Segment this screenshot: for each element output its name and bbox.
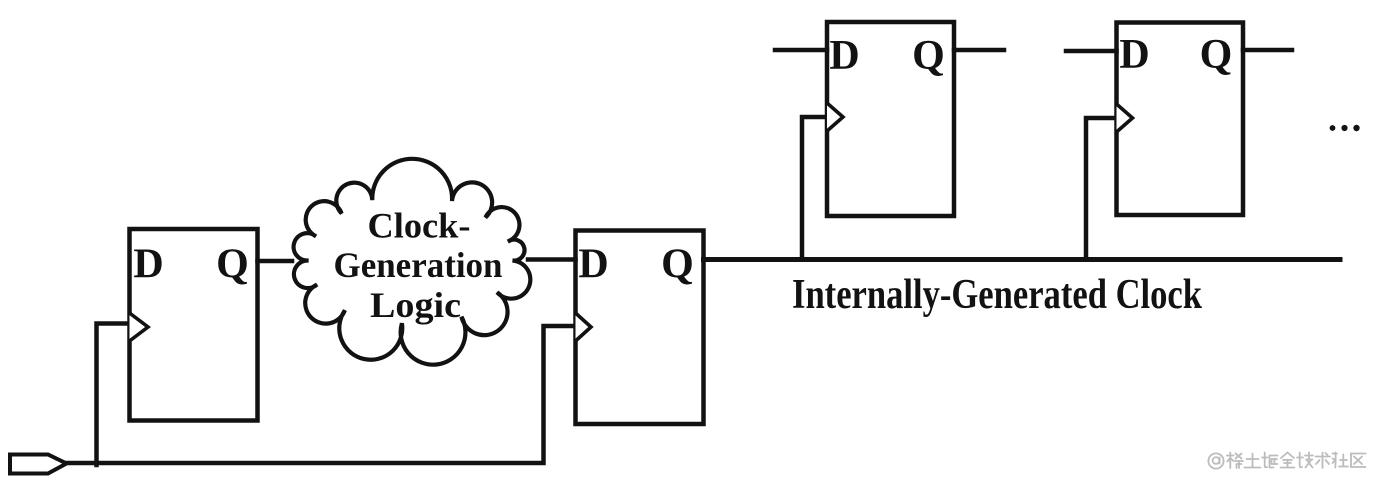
clock-generation logic cloud [294, 159, 531, 365]
input port symbol (external clock pin) [10, 455, 67, 474]
watermark glyph 土 [1245, 454, 1261, 468]
wire: clock tap up to FF4 clock input [1086, 118, 1117, 260]
watermark glyph 金 [1281, 453, 1295, 468]
wire: clock tap up to FF3 clock input [802, 117, 827, 260]
flip-flop U4 (upper-right D flip-flop): box [1117, 23, 1244, 216]
svg-text:Logic: Logic [370, 285, 461, 325]
wire: FF1 Q output to cloud [258, 259, 293, 264]
svg-text:D: D [829, 33, 859, 79]
flip-flop U1 (left D flip-flop): box [130, 229, 258, 421]
wire: FF4 D input stub [1066, 49, 1117, 54]
watermark glyph 社 [1333, 453, 1349, 468]
watermark glyph 区 [1351, 454, 1366, 468]
watermark glyph 术 [1316, 453, 1331, 469]
wire: FF3 D input stub [775, 48, 827, 53]
svg-text:D: D [133, 242, 163, 288]
svg-text:Q: Q [661, 242, 694, 288]
flip-flop U3 (upper-left D flip-flop): clock input chevron [827, 103, 843, 131]
wire: internally-generated clock line from FF2 Q [704, 257, 1341, 262]
wire: FF4 Q output stub [1243, 48, 1292, 53]
watermark @ sign [1208, 453, 1223, 468]
svg-text:Q: Q [216, 242, 249, 288]
wire: external clock bottom run from input port to FF2 clock [64, 326, 576, 463]
flip-flop U2 (middle D flip-flop): clock input chevron [576, 313, 592, 341]
svg-text:D: D [1119, 32, 1149, 78]
flip-flop U1 (left D flip-flop): clock input chevron [130, 313, 149, 341]
watermark glyph 掘 [1262, 453, 1278, 468]
wire: cloud output to FF2 D input [528, 257, 576, 262]
watermark glyph 技 [1297, 453, 1313, 468]
wire: clk net from input port up to FF1 clock [97, 324, 132, 466]
flip-flop U4 (upper-right D flip-flop): clock input chevron [1117, 104, 1133, 132]
watermark glyph 稀 [1227, 453, 1243, 469]
wire: FF3 Q output stub [954, 48, 1004, 53]
ellipsis: more flip-flop stages [1330, 125, 1360, 131]
flip-flop U2 (middle D flip-flop): box [576, 231, 704, 425]
flip-flop U3 (upper-left D flip-flop): box [827, 22, 954, 216]
svg-text:Q: Q [912, 33, 945, 79]
svg-text:Generation: Generation [334, 245, 503, 285]
svg-text:Internally-Generated Clock: Internally-Generated Clock [792, 271, 1202, 318]
svg-text:Q: Q [1200, 32, 1233, 78]
svg-text:D: D [578, 242, 608, 288]
svg-text:Clock-: Clock- [368, 206, 471, 246]
